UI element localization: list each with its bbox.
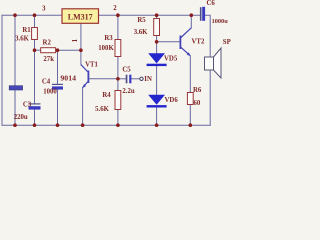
wire VT1 emitter down [82, 88, 84, 126]
junction ground VT1 emitter [81, 123, 85, 127]
svg-text:VT2: VT2 [192, 39, 205, 46]
wire node to R4 [117, 79, 119, 91]
svg-text:C6: C6 [207, 0, 216, 7]
svg-text:1000u: 1000u [212, 18, 229, 25]
wire R4 to ground [117, 110, 119, 126]
capacitor C4 bar [52, 86, 63, 89]
svg-text:R5: R5 [137, 17, 146, 24]
wire VD5 to VD6 [156, 66, 158, 95]
capacitor C3 plate [29, 103, 41, 104]
svg-text:SP: SP [223, 39, 231, 46]
capacitor C5 plate right [129, 75, 131, 84]
wire node to C5 [118, 78, 126, 80]
capacitor C6 plate right [202, 7, 205, 21]
junction top R3 rail [116, 13, 120, 17]
svg-text:1000: 1000 [43, 89, 57, 96]
wire left edge [1, 15, 3, 125]
wire top rail right of LM317 [99, 14, 200, 16]
resistor R4 [115, 91, 121, 110]
speaker SP horn [214, 48, 222, 78]
wire VD6 to ground [156, 107, 158, 125]
node VT1 base / R3 / R4 / C5 [116, 77, 120, 81]
resistor R1 [32, 28, 38, 40]
svg-text:R2: R2 [43, 39, 52, 46]
junction C4 top [56, 48, 60, 52]
wire LM317 pin1 down to VT1 collector [80, 23, 82, 64]
wire rail2 C3 to ground [34, 110, 36, 126]
wire VT2 collector up [190, 15, 192, 28]
svg-text:2: 2 [113, 5, 117, 12]
capacitor C6 plate left [200, 7, 202, 21]
svg-text:R1: R1 [22, 27, 31, 34]
svg-text:9014: 9014 [60, 74, 76, 83]
svg-text:5.6K: 5.6K [95, 106, 109, 113]
wire R6 to ground [189, 105, 191, 126]
junction ground VD6 [155, 123, 159, 127]
svg-text:LM317: LM317 [68, 13, 93, 22]
wire C5 to IN terminal [132, 78, 140, 80]
svg-text:27k: 27k [43, 56, 54, 63]
junction LM317 pin1 [79, 48, 83, 52]
wire bottom ground rail [2, 124, 210, 126]
junction ground C4 [56, 123, 60, 127]
svg-text:C4: C4 [42, 79, 51, 86]
capacitor C1 bar [9, 86, 22, 90]
junction VT2 base tap [155, 40, 159, 44]
wire C4 rail upper [57, 50, 59, 84]
wire C6 right to corner and down to speaker [205, 15, 210, 57]
junction ground rail2 [33, 123, 37, 127]
terminal IN circle [140, 77, 143, 80]
junction ground R4 [116, 123, 120, 127]
wire speaker bottom to ground corner [209, 70, 211, 125]
IC U1 LM317 [62, 9, 99, 23]
wire VT2 emitter to R6 [189, 56, 191, 93]
svg-text:VT1: VT1 [85, 61, 98, 68]
svg-text:3.6K: 3.6K [15, 35, 29, 42]
svg-text:C3: C3 [23, 102, 32, 109]
junction R2 left [33, 48, 37, 52]
svg-text:2.2u: 2.2u [122, 88, 134, 95]
junction top rail2 [33, 13, 37, 17]
junction ground rail1 [13, 123, 17, 127]
capacitor C5 plate left [126, 75, 128, 84]
svg-text:220u: 220u [14, 114, 28, 121]
svg-text:60: 60 [194, 100, 201, 107]
resistor R3 [115, 40, 121, 57]
svg-text:3.6K: 3.6K [134, 29, 148, 36]
wire top rail left [2, 14, 62, 16]
wire rail2 top to R1 [34, 15, 36, 27]
wire node rail top to R3 [117, 15, 119, 39]
svg-text:3: 3 [42, 6, 46, 13]
junction top rail1 [13, 13, 17, 17]
speaker SP box [205, 57, 214, 70]
wire rail C1 upper [14, 15, 16, 85]
wire R2 row left [35, 49, 41, 51]
diode VD6 [148, 95, 165, 105]
svg-text:VD6: VD6 [165, 97, 179, 104]
wire rail2 R1 to C3 [34, 40, 36, 104]
svg-text:R6: R6 [193, 87, 202, 94]
VT1 emitter arrow [82, 84, 86, 89]
diode VD5 [148, 53, 165, 63]
svg-text:VD5: VD5 [164, 56, 178, 63]
wire VT2 base [157, 41, 181, 43]
svg-text:1: 1 [72, 38, 79, 42]
svg-text:R3: R3 [104, 35, 113, 42]
wire rail C1 lower [14, 89, 16, 125]
svg-text:IN: IN [144, 76, 152, 83]
resistor R5 [154, 19, 160, 36]
svg-text:100K: 100K [98, 45, 114, 52]
resistor R2 [41, 48, 56, 53]
transistor VT1 [81, 65, 89, 88]
wire R3 bottom to node [117, 57, 119, 79]
wire R2 row right [56, 49, 81, 51]
capacitor C4 plate [52, 84, 63, 85]
svg-text:C5: C5 [122, 66, 131, 73]
junction top VT2 collector [190, 13, 194, 17]
VT2 emitter arrow [187, 52, 191, 56]
svg-text:R4: R4 [102, 92, 111, 99]
junction top R5 rail [155, 13, 159, 17]
resistor R6 [187, 93, 193, 105]
wire VD rail top to R5 [156, 15, 158, 18]
wire VT1 base to node [89, 78, 118, 80]
capacitor C3 bar [29, 106, 41, 109]
junction ground R6 [189, 123, 193, 127]
wire C4 rail lower [57, 90, 59, 126]
wire R5 to VD5 [156, 36, 158, 54]
transistor VT2 [180, 28, 191, 55]
